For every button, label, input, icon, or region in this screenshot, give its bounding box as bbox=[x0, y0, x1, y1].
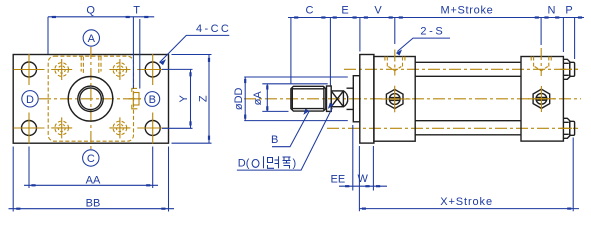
svg-text:T: T bbox=[133, 4, 140, 16]
mount hole top-left bbox=[14, 54, 45, 85]
svg-text:4-CC: 4-CC bbox=[196, 23, 231, 35]
dimension AA bbox=[24, 147, 158, 189]
top dimension chain line C E V M+Stroke N P bbox=[288, 17, 584, 19]
dim ticks top chain bbox=[294, 16, 298, 18]
svg-text:E: E bbox=[341, 4, 348, 16]
ext line front port center bbox=[394, 18, 396, 45]
horizontal centerline bbox=[39, 98, 145, 100]
dim T extension lines bbox=[133, 17, 139, 89]
svg-text:): ) bbox=[293, 158, 297, 170]
label B with leader bbox=[271, 109, 309, 147]
rear cushion screw bbox=[528, 86, 555, 112]
tie rod hole top-right bbox=[109, 59, 130, 80]
dimension Q and T top line bbox=[48, 16, 154, 18]
tie rod nut bottom rear bbox=[560, 118, 581, 138]
ext line rear port center bbox=[540, 18, 542, 46]
svg-text:A: A bbox=[88, 33, 96, 45]
dimension dia DD bbox=[233, 77, 348, 121]
ext line cap rear face bbox=[562, 18, 564, 53]
label D (width across flats) with leader bbox=[237, 103, 334, 170]
ext line stud end bbox=[574, 18, 576, 60]
mount hole bottom-left bbox=[14, 113, 45, 144]
front cushion screw bbox=[381, 86, 411, 113]
svg-text:X+Stroke: X+Stroke bbox=[440, 196, 493, 208]
svg-text:C: C bbox=[87, 153, 95, 165]
ext line rod end bbox=[290, 18, 292, 84]
hidden port hole front view top bbox=[81, 57, 101, 75]
svg-text:Z: Z bbox=[198, 95, 210, 102]
piston rod thread section bbox=[291, 86, 326, 111]
vertical centerline bbox=[90, 47, 92, 150]
rod neck to gland bbox=[347, 88, 354, 109]
dimension dia A bbox=[252, 84, 328, 112]
svg-text:Y: Y bbox=[178, 94, 190, 102]
mount hole top-right bbox=[137, 54, 168, 85]
balloon C bbox=[83, 150, 99, 166]
svg-text:B: B bbox=[149, 94, 156, 106]
tie rod centerline top bbox=[344, 68, 578, 70]
tie rod hole bottom-left bbox=[51, 117, 72, 138]
dimension Z bbox=[172, 55, 212, 144]
flange plate front view bbox=[13, 55, 168, 144]
bore circle outer bbox=[68, 77, 113, 122]
svg-text:øDD: øDD bbox=[233, 87, 245, 110]
hangul 폭 bbox=[283, 157, 291, 169]
mount hole bottom-right bbox=[137, 113, 168, 144]
front port hidden lines bbox=[385, 50, 405, 76]
balloon A bbox=[83, 30, 99, 46]
svg-text:Q: Q bbox=[86, 4, 95, 16]
svg-text:B: B bbox=[271, 134, 278, 146]
cushion screw boss front view right bbox=[129, 88, 142, 108]
svg-text:BB: BB bbox=[86, 198, 101, 210]
label 4-CC with leader bbox=[160, 23, 232, 65]
svg-text:P: P bbox=[565, 4, 572, 16]
hidden cylinder body square (dashed) bbox=[48, 56, 133, 141]
dimension BB bbox=[9, 147, 175, 212]
svg-text:M+Stroke: M+Stroke bbox=[441, 5, 494, 17]
dimension EE and W bbox=[331, 125, 387, 191]
cylinder head (front cover) bbox=[374, 57, 415, 142]
svg-text:D: D bbox=[26, 94, 34, 106]
svg-text:øA: øA bbox=[252, 91, 264, 106]
cylinder rear cap bbox=[521, 57, 563, 142]
tie rods side view bbox=[415, 62, 521, 135]
gland plate bbox=[353, 76, 360, 122]
tie rod nut top rear bbox=[560, 59, 581, 79]
tie rod hole bottom-right bbox=[109, 117, 130, 138]
svg-text:V: V bbox=[374, 4, 382, 16]
svg-text:2-S: 2-S bbox=[420, 26, 445, 38]
tie rod centerline bottom bbox=[327, 127, 578, 129]
balloon B bbox=[145, 92, 160, 107]
front mounting flange bbox=[360, 55, 374, 144]
rear port hidden lines bbox=[531, 48, 551, 76]
rod wrench flats with X bbox=[331, 91, 348, 107]
dimension X+Stroke bbox=[359, 138, 579, 212]
hangul 면 bbox=[268, 156, 279, 168]
dim Q extension left bbox=[47, 17, 49, 54]
rod collar bbox=[327, 86, 332, 111]
svg-text:AA: AA bbox=[86, 175, 101, 187]
balloon D bbox=[22, 91, 38, 107]
svg-text:EE: EE bbox=[331, 173, 346, 185]
svg-text:C: C bbox=[306, 4, 314, 16]
main centerline bbox=[244, 98, 581, 100]
ext line flange front bbox=[359, 18, 361, 52]
dim ticks Q/T bbox=[52, 16, 56, 18]
label 2-S with leader bbox=[396, 26, 450, 56]
bore circle inner bbox=[78, 86, 103, 111]
bore circle chamfer bbox=[80, 88, 102, 110]
dimension Y bbox=[162, 69, 193, 128]
svg-text:D(: D( bbox=[238, 158, 250, 170]
ext line flats start bbox=[329, 18, 331, 86]
hangul 이 bbox=[252, 156, 263, 168]
svg-text:N: N bbox=[548, 4, 556, 16]
tie rod hole top-left bbox=[51, 59, 72, 80]
